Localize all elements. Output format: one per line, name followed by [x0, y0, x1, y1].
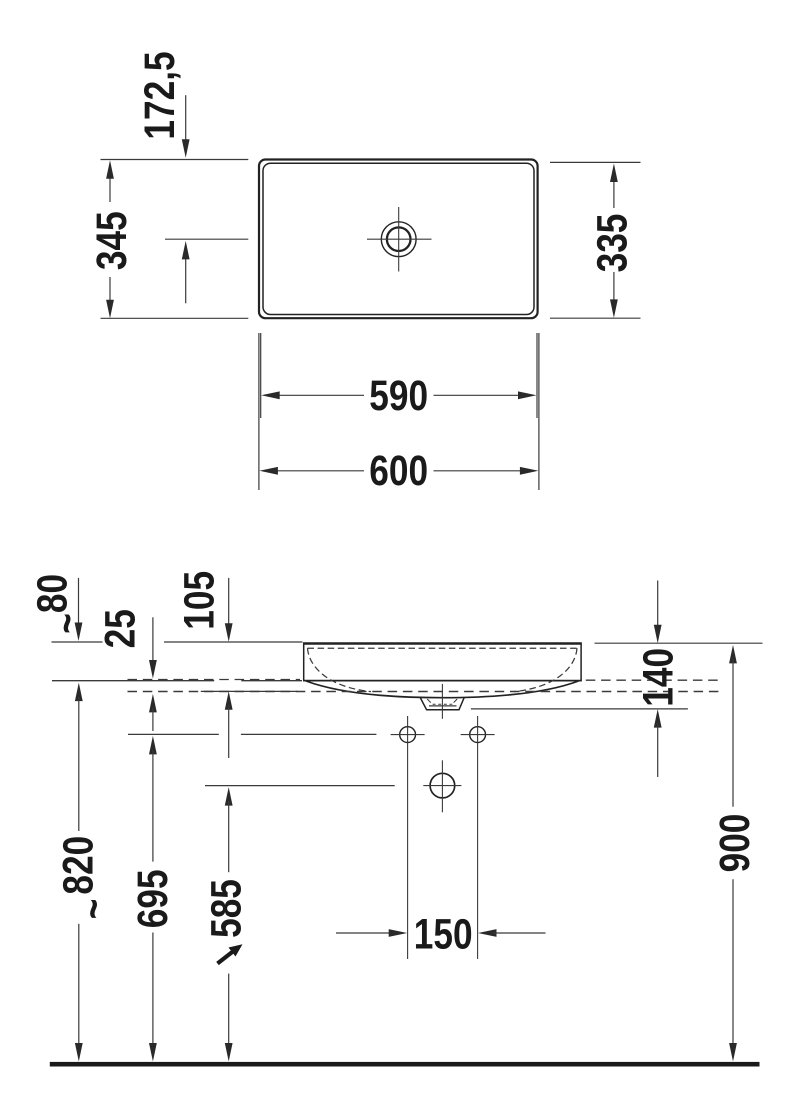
- svg-text:~: ~: [70, 899, 118, 920]
- svg-text:25: 25: [96, 609, 144, 648]
- svg-text:~: ~: [43, 613, 91, 634]
- svg-text:900: 900: [711, 814, 759, 873]
- svg-text:172,5: 172,5: [136, 51, 184, 139]
- svg-text:585: 585: [202, 879, 250, 938]
- svg-text:150: 150: [414, 910, 473, 958]
- svg-text:695: 695: [129, 869, 177, 928]
- svg-text:345: 345: [88, 211, 136, 270]
- svg-text:335: 335: [588, 214, 636, 273]
- svg-text:590: 590: [369, 372, 428, 420]
- svg-text:600: 600: [369, 447, 428, 495]
- svg-text:820: 820: [54, 836, 102, 895]
- svg-text:140: 140: [634, 648, 682, 707]
- svg-text:80: 80: [28, 574, 76, 613]
- svg-text:105: 105: [175, 571, 223, 630]
